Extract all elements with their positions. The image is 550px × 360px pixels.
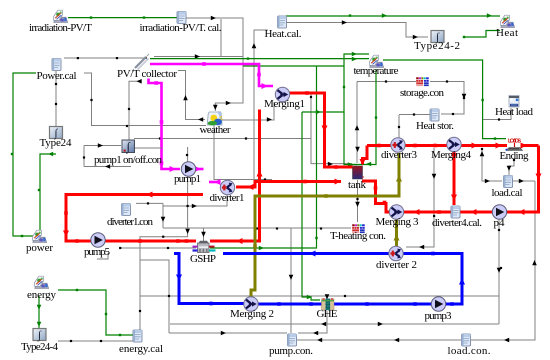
component Power.cal (notebook icon): [52, 59, 61, 71]
component Merging 2 (merging icon): [244, 297, 258, 311]
wire load.con to load.cal riser: [471, 181, 535, 340]
wire green Type24-2 to Heat: [464, 31, 500, 38]
wire green y66 to GSHP: [243, 65, 344, 67]
wire bus to weather input: [178, 71, 205, 120]
wire pump.con to load.con bus: [297, 339, 461, 341]
wire green Type24 to power: [40, 154, 56, 232]
component Heat stor. (notebook icon): [430, 109, 439, 121]
wire storage.con bracket: [430, 82, 464, 115]
svg-text:pump1 on/off.con: pump1 on/off.con: [94, 154, 163, 166]
svg-text:diverter3: diverter3: [381, 149, 418, 161]
wire red Merging 3 to p4 loop and riser: [403, 146, 539, 213]
wire Heat stor. bottom link: [399, 114, 430, 116]
svg-text:pump5: pump5: [84, 246, 111, 258]
component Heat (plotter icon): [501, 15, 515, 27]
arrows green: [48, 152, 53, 157]
wire Type24-4 to energy.cal: [58, 340, 133, 342]
wire red Merging4 to diverter4.cal: [453, 151, 456, 205]
olive dots and arrow: [396, 175, 402, 182]
wire weather down to y179 bus: [214, 125, 272, 180]
arrows black on gray wires: [211, 16, 216, 21]
wire Heat stor. to diverter3: [398, 115, 400, 139]
component Heat.cal (notebook icon): [278, 16, 287, 28]
svg-text:PV/T collector: PV/T collector: [117, 68, 177, 80]
wire y206 bus: [163, 194, 227, 206]
component GHE (borehole icon): [322, 299, 335, 311]
component energy (plotter icon): [35, 276, 49, 288]
wire green temperature to Heat load / Ending: [383, 60, 506, 139]
svg-text:Ending: Ending: [500, 150, 530, 162]
wire magenta diverter1 outlet stub: [209, 181, 218, 184]
wire GHE to pump.con: [298, 311, 327, 333]
wire green energy to Type24-4: [38, 296, 40, 329]
wire weather column to storage.con: [357, 81, 416, 83]
wire y324 bus: [170, 323, 499, 325]
wire pump5 bracket: [97, 253, 108, 259]
component storage.con (controller icon): [416, 77, 429, 86]
wire diverter1.con riser: [129, 81, 140, 140]
wire green Heat.cal to Heat: [286, 15, 500, 17]
svg-text:irradiation-PV/T: irradiation-PV/T: [29, 22, 92, 34]
svg-text:energy: energy: [27, 289, 57, 301]
svg-text:power: power: [26, 242, 53, 254]
wire red diverter3/Merging4 header: [367, 144, 539, 147]
svg-text:irradiation-PV/T. cal.: irradiation-PV/T. cal.: [140, 22, 222, 34]
junction dots black: [77, 57, 79, 59]
svg-text:pump.con.: pump.con.: [269, 345, 313, 357]
wire x169 column: [140, 260, 169, 333]
component Merging1 (merging icon): [275, 87, 289, 101]
svg-text:load.cal: load.cal: [492, 187, 523, 199]
svg-text:pump3: pump3: [425, 310, 453, 322]
component pump5 (pump icon): [91, 233, 105, 247]
magenta dots and arrows: [202, 62, 206, 66]
wire pump1 on/off.con box top: [84, 145, 121, 147]
wire green x344 column to tank: [344, 112, 357, 165]
wire olive Merging 3 to diverter 2: [395, 219, 398, 247]
svg-text:Heat load: Heat load: [495, 106, 534, 118]
svg-text:diverter 2: diverter 2: [376, 259, 417, 271]
svg-text:storage.con: storage.con: [400, 87, 445, 99]
wire irradiation-PV/T.cal to right bus: [186, 18, 243, 111]
component Type24-2 (integrator icon): [431, 31, 444, 44]
wire red tank to Merging 3: [362, 181, 391, 212]
wire Merging4 to diverter 2 column: [406, 148, 434, 247]
wire pump1 column: [187, 147, 189, 229]
svg-text:Merging 3: Merging 3: [376, 216, 420, 228]
wire blue GHE loop: [258, 303, 432, 306]
wire green x316 column to GSHP: [210, 66, 317, 248]
component temperature (plotter icon): [370, 55, 384, 67]
component weather (weather data icon): [207, 112, 222, 126]
wire riser to Heat.cal: [154, 56, 243, 58]
component diverter3 (diverter icon): [391, 138, 405, 152]
component T-heating con. (controller icon): [352, 224, 365, 233]
component load.con (notebook icon): [462, 334, 471, 346]
wire p4 column: [498, 218, 500, 324]
wire Power.cal to weather (left loop): [84, 73, 206, 126]
wire load.cal left link: [482, 148, 502, 181]
wire storage.con column to tank: [356, 82, 358, 164]
wire x254 column: [253, 57, 255, 188]
component power (plotter icon): [33, 230, 47, 242]
svg-text:GSHP: GSHP: [190, 253, 216, 265]
wire Power.cal output bus y58: [64, 57, 145, 59]
wire y296 bus: [140, 295, 499, 297]
svg-text:diverter4.cal.: diverter4.cal.: [432, 217, 482, 229]
component pump1 on/off.con (controller box icon): [122, 140, 135, 154]
svg-text:temperature: temperature: [354, 65, 399, 77]
wire Ending to load.cal elbow: [509, 160, 514, 175]
svg-text:Type24: Type24: [40, 137, 73, 149]
wire x163 drop: [162, 206, 164, 228]
svg-text:T-heating con.: T-heating con.: [330, 230, 386, 242]
svg-text:diverter1.con: diverter1.con: [107, 216, 154, 228]
component pump.con (notebook icon): [288, 334, 297, 346]
wire green irradiation-PV/T to irradiation-PV/T.cal: [68, 17, 177, 19]
svg-text:weather: weather: [200, 124, 231, 136]
wire pump1 on/off.con box bottom: [84, 166, 131, 168]
wire Heat load bottom link: [483, 108, 511, 120]
svg-text:diverter1: diverter1: [210, 192, 245, 204]
component diverter1 (diverter icon): [220, 180, 234, 194]
wire pump1 on/off.con box left: [83, 146, 85, 167]
component PV/T collector (panel icon): [132, 54, 149, 71]
wire red Merging1 to tank top: [289, 93, 353, 167]
red dots and arrows: [146, 192, 153, 198]
wire Power.cal down to Type24: [55, 71, 57, 126]
component diverter1.con (notebook icon): [122, 204, 131, 216]
wire x291 column: [290, 228, 292, 333]
component pump3 (pump icon): [431, 297, 445, 311]
component diverter4.cal. (notebook icon): [451, 206, 460, 218]
component Merging 3 (merging icon): [389, 205, 403, 219]
svg-text:Heat: Heat: [496, 27, 518, 39]
wire green PV/T collector to temperature y59: [150, 58, 369, 60]
component irradiation-PV/T (plotter icon): [54, 10, 68, 22]
component irradiation-PV/T.cal (notebook icon): [177, 12, 186, 24]
wire red GSHP to riser x259.5: [210, 110, 260, 242]
wire diverter1.con to GSHP: [119, 247, 196, 249]
component GSHP (heat pump icon): [193, 241, 216, 253]
wire blue diverter 2 to pump3: [402, 254, 462, 305]
component Heat load (load file icon): [509, 96, 519, 108]
svg-text:Heat.cal.: Heat.cal.: [265, 28, 302, 40]
wire red header drop to tank top: [363, 146, 368, 165]
wire blue GSHP stub to Merging 2: [174, 254, 244, 304]
wire green column to GHE: [302, 112, 320, 300]
wire weather right to Merging1: [222, 102, 274, 120]
wire blue diverter 2 to GSHP side: [223, 252, 390, 255]
svg-text:Merging 2: Merging 2: [230, 308, 274, 320]
wire magenta pump1 outlet stub: [196, 168, 204, 171]
svg-text:p4: p4: [494, 217, 506, 229]
component p4 (pump icon): [492, 205, 506, 219]
wire x140 column to energy.cal: [140, 229, 188, 330]
wire load.cal right link: [512, 180, 535, 182]
wire magenta PV/T collector to Merging1: [150, 64, 273, 86]
wire Heat.cal to Type24-2: [286, 23, 428, 38]
wire y203 bus: [136, 202, 163, 204]
wire y138 horizontal: [134, 138, 311, 140]
wire olive diverter3 to Merging 2: [251, 153, 399, 297]
component load.cal (notebook icon): [504, 176, 513, 188]
svg-text:tank: tank: [348, 179, 367, 191]
wire y333 bus: [169, 332, 287, 334]
svg-text:Type24-2: Type24-2: [414, 40, 460, 52]
svg-text:Type24-4: Type24-4: [21, 341, 59, 353]
component diverter 2 (diverter icon): [389, 246, 403, 260]
svg-text:GHE: GHE: [317, 308, 338, 320]
svg-text:Heat stor.: Heat stor.: [416, 120, 454, 132]
svg-text:Merging1: Merging1: [264, 98, 305, 110]
svg-text:∫: ∫: [126, 140, 131, 154]
junction dots green: [90, 16, 92, 18]
svg-text:Power.cal: Power.cal: [37, 70, 77, 82]
wire y228 bus to T-heating con.: [163, 227, 351, 229]
component Type24 (integrator icon): [50, 127, 63, 140]
svg-text:energy.cal: energy.cal: [119, 343, 163, 355]
blue dots and arrows: [176, 275, 182, 282]
component pump1 (pump icon): [181, 162, 195, 176]
component Type24-4 (integrator icon): [33, 329, 46, 342]
wire green temperature to tank: [348, 69, 376, 165]
wire tank down to T-heating con.: [357, 180, 359, 222]
wire green Power.cal loop to power: [13, 73, 36, 236]
wire riser to Heat.cal: [254, 30, 268, 57]
component energy.cal (notebook icon): [133, 330, 142, 342]
wire magenta PV/T collector to pump1: [149, 79, 181, 170]
svg-text:Merging4: Merging4: [431, 149, 472, 161]
wire red pump5 loop (diverter1 to GSHP): [66, 195, 203, 242]
wire red diverter1 to tank lower inlet: [236, 182, 341, 188]
wire tank top feed: [311, 94, 352, 164]
wire green temperature west loop: [302, 54, 369, 112]
wire GSHP top feed: [203, 228, 205, 242]
component tank (storage tank icon): [352, 166, 364, 179]
wire pump1 on/off.con to magenta column: [135, 147, 162, 149]
svg-text:load.con.: load.con.: [448, 345, 491, 357]
component Ending (sink icon) with LOADS tag: [506, 139, 523, 151]
wire green energy to energy.cal: [58, 290, 133, 335]
wire branch at x221: [220, 19, 222, 57]
component Merging4 (merging icon): [447, 137, 461, 151]
svg-text:pump1: pump1: [174, 173, 201, 185]
